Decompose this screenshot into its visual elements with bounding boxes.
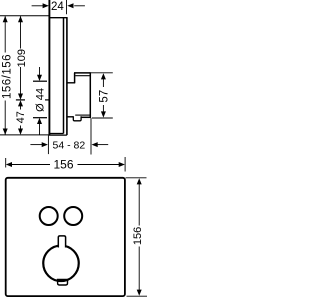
- dimension 156 top extension left: [5, 158, 7, 168]
- left extension line for 54-82: [47, 135, 49, 154]
- dimension 156 top line: [12, 164, 120, 166]
- dimension 57 extension bottom: [92, 117, 113, 119]
- dimension 54-82 line right tail: [98, 144, 109, 146]
- plate front inner line: [63, 18, 65, 134]
- dimension D44 tick bottom: [33, 117, 47, 119]
- dimension 47 line: [20, 106, 22, 129]
- dimension 57 extension top: [90, 72, 113, 74]
- dimension 156 top extension right: [124, 157, 126, 172]
- dimension 24 line: [32, 5, 85, 7]
- dimension D44 arrows: [37, 75, 42, 124]
- thermostat knob: [43, 246, 79, 282]
- dimension 54-82 arrows: [42, 142, 98, 147]
- plate top edge: [49, 17, 68, 19]
- right extension line down from handle: [90, 118, 92, 155]
- dimension 109 line: [20, 16, 22, 94]
- dimension 156/156 arrows: [3, 16, 8, 135]
- select button left: [40, 207, 58, 225]
- select button right: [64, 207, 82, 225]
- sleeve top edge: [67, 82, 75, 84]
- svg-text:57: 57: [98, 90, 110, 103]
- svg-text:156: 156: [53, 158, 73, 172]
- dimension 156 right extension bottom: [127, 295, 148, 297]
- knob bottom marker: [58, 280, 68, 286]
- plate left edge: [48, 0, 50, 135]
- front plate square: [6, 178, 125, 296]
- handle outline: [74, 72, 91, 118]
- plate front outer line: [66, 18, 68, 135]
- dimension 57 line: [102, 79, 104, 112]
- svg-text:109: 109: [16, 49, 28, 67]
- plate bottom inner edge: [49, 133, 64, 135]
- dimension 109 arrows: [18, 16, 23, 100]
- svg-text:Ø 44: Ø 44: [34, 88, 46, 112]
- dimension 24 extension lines: [66, 0, 68, 14]
- dimension 156 right line: [138, 184, 140, 290]
- dimension 24 arrows: [43, 3, 74, 8]
- dimension 156 right arrows: [137, 178, 142, 296]
- dimension D44 tick top: [33, 80, 47, 82]
- dimension 54-82 line left tail: [30, 144, 42, 146]
- dimension D44 line lower: [39, 124, 41, 135]
- dimension 156 top arrows: [6, 162, 125, 167]
- valve center tick at dim column: [16, 99, 25, 101]
- svg-text:24: 24: [51, 1, 64, 13]
- handle top chamfer line: [75, 75, 90, 77]
- top reference line: [0, 15, 50, 17]
- svg-text:54 - 82: 54 - 82: [53, 140, 86, 152]
- handle bottom chamfer line: [75, 114, 90, 116]
- svg-text:156: 156: [132, 227, 144, 245]
- dimension D44 line upper: [39, 67, 41, 75]
- valve center tick at plate: [45, 99, 50, 101]
- dimension 156 right extension top: [126, 177, 147, 179]
- dimension 156/156 line: [4, 16, 6, 134]
- sleeve bottom edge: [67, 116, 74, 118]
- svg-text:47: 47: [15, 111, 27, 123]
- safety button side profile: [73, 116, 81, 121]
- dimension 57 arrows: [101, 73, 106, 117]
- plate bottom outer edge: [49, 134, 67, 136]
- dimension 47 arrows: [18, 100, 23, 135]
- svg-text:156/156: 156/156: [2, 54, 14, 99]
- safety button tab: [58, 236, 65, 248]
- bottom reference line: [0, 134, 49, 136]
